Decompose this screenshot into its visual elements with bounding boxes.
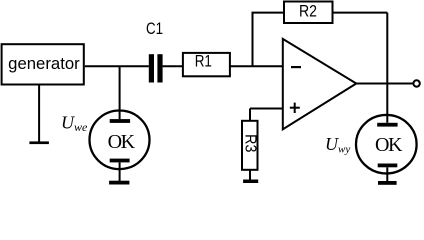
svg-text:R3: R3 [242, 134, 259, 152]
svg-text:R1: R1 [195, 53, 212, 71]
wire junction branch down to U_we meter [119, 66, 121, 120]
wire generator output to C1 [85, 65, 149, 67]
wire U_we meter to ground [119, 162, 121, 181]
svg-text:OK: OK [108, 131, 136, 153]
wire R3 to ground [249, 170, 251, 180]
meter U_we (oscilloscope OK) [90, 110, 150, 169]
wire right vertical from R2 down through output node to U_wy meter [386, 13, 388, 123]
op-amp plus sign [290, 103, 300, 113]
svg-text:C1: C1 [146, 20, 163, 38]
ground under R3 [243, 180, 258, 184]
wire feedback vertical up from node [252, 13, 254, 67]
op-amp minus sign [291, 66, 301, 68]
wire non-inverting input [250, 108, 283, 110]
svg-text:generator: generator [8, 55, 80, 73]
resistor R2 [284, 2, 333, 24]
meter U_wy (oscilloscope OK) [356, 115, 417, 174]
wire down to R3 [249, 109, 251, 121]
wire generator to ground [38, 86, 40, 143]
wire R2 to right vertical [333, 12, 388, 14]
svg-text:R2: R2 [299, 3, 317, 21]
op-amp U1 [283, 39, 357, 129]
capacitor C1 [149, 54, 163, 82]
ground under U_we meter [109, 181, 129, 185]
svg-text:OK: OK [375, 134, 403, 156]
ground under U_wy meter [378, 181, 397, 185]
output terminal [413, 80, 419, 86]
wire R1 to op-amp inverting input [230, 65, 283, 67]
wire C1 to R1 [163, 65, 182, 67]
resistor R1 [183, 53, 230, 76]
generator box G1 [2, 44, 84, 84]
ground under generator [29, 141, 49, 144]
wire U_wy meter to ground [386, 167, 388, 181]
wire feedback top to R2 [252, 12, 285, 14]
wire op-amp output [356, 83, 413, 85]
resistor R3 [242, 121, 258, 170]
